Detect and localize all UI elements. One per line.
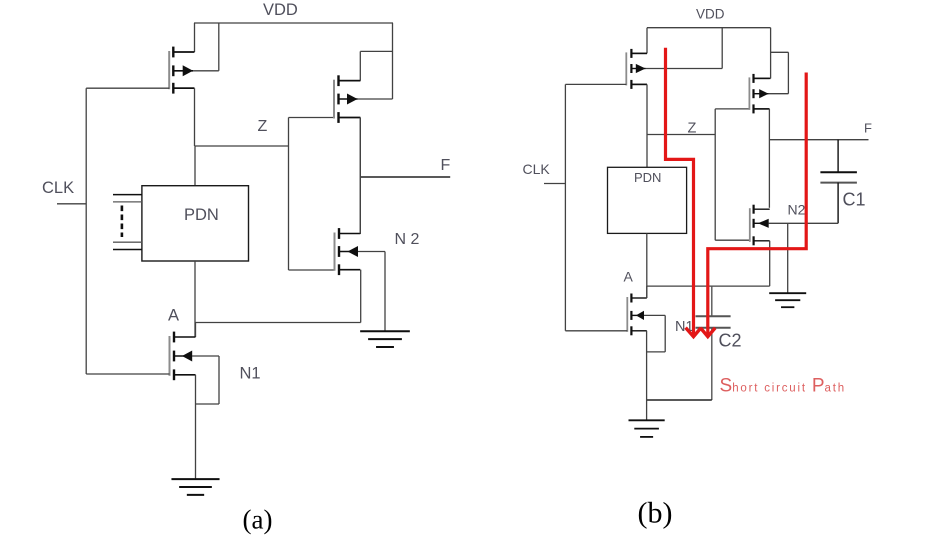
node CLK label (a) [42,179,74,197]
capacitor C1 stem top (b) [837,140,839,173]
figure label (b) [638,497,673,530]
wire P1 drain to Z (b) [631,84,647,134]
capacitor C2 (b) [696,316,742,350]
wire CLK to N1 gate (a) [86,373,169,375]
ground below N2 (a) [360,331,410,347]
svg-text:PDN: PDN [184,206,219,224]
wire CLK to P1 gate (a) [86,87,169,89]
wire CLK stub (a) [57,203,86,205]
svg-text:C2: C2 [719,331,742,351]
figure label (a) [243,505,273,535]
wire P2 bulk loop (b) [769,52,789,93]
wire rail to N2 gate (a) [289,269,335,271]
capacitor C1 stem bottom (b) [837,183,839,224]
svg-text:A: A [624,269,634,285]
wire P2 drain to F rail (b) [754,109,770,208]
wire right inverter input rail (a) [288,118,290,271]
node N1 label (a) [240,365,261,383]
wire rail to P2 gate (b) [715,108,749,110]
PDN input ellipsis dashed line (a) [121,206,124,238]
capacitor C2 stem top (b) [711,286,713,316]
svg-text:F: F [441,157,451,174]
transistor N2 output-inverter NMOS (a) [335,228,361,275]
wire C2 to ground rail (b) [647,399,712,401]
wire N1 source to ground (a) [195,375,197,479]
svg-text:CLK: CLK [523,161,551,177]
wire N2 source down to A wire (a) [360,270,362,323]
svg-text:PDN: PDN [634,170,661,185]
wire CLK stub (b) [544,183,565,185]
wire inverter input rail (b) [714,109,716,240]
wire CLK to P1 gate (b) [565,83,626,85]
transistor N1 footer NMOS (b) [627,294,647,336]
node Z label (b) [688,121,697,137]
capacitor C2 stem bottom (b) [711,328,713,400]
transistor P1 precharge PMOS (a) [169,47,194,94]
svg-text:VDD: VDD [696,7,725,22]
node VDD label (b) [696,7,725,22]
wire N1 bulk loop (b) [644,315,665,352]
wire N2 source down to A wire (b) [769,241,771,286]
ground below N2 (b) [769,293,806,307]
wire P2 source to VDD (b) [754,28,771,79]
transistor P2 output-inverter PMOS (b) [749,74,769,114]
transistor P1 precharge PMOS (b) [626,49,647,89]
node F label (a) [441,157,451,174]
svg-text:N 2: N 2 [395,231,420,248]
node F label (b) [864,121,872,136]
wire P1 source to VDD (a) [173,23,194,52]
wire N1 drain to node A (b) [646,286,648,298]
node N1 label (b) [675,319,694,335]
svg-text:C1: C1 [843,190,866,210]
wire Z to PDN top (a) [194,146,196,186]
transistor P2 output-inverter PMOS (a) [334,75,360,123]
wire P1 drain to Z (a) [173,88,194,146]
wire P1 bulk to VDD (a) [193,23,219,71]
node A label (b) [624,269,634,285]
svg-text:VDD: VDD [263,1,298,19]
pull-down network PDN box (b) [608,167,687,233]
ground below N1 (a) [171,479,219,495]
transistor N1 footer NMOS (a) [170,332,196,381]
svg-text:Z: Z [258,118,268,135]
short-circuit path red segment 1 (b) [666,48,694,334]
node VDD label (a) [263,1,298,19]
wire Z rail to P2 gate (a) [289,117,335,119]
wire CLK rail (a) [85,88,87,374]
wire N2 bulk to ground (a) [358,252,385,332]
wire P1 bulk to VDD (b) [646,28,723,69]
wire PDN bottom to node A (a) [194,261,196,337]
wire VDD rail (a) [194,22,393,24]
node CLK label (b) [523,161,551,177]
wire Z to PDN top (b) [646,135,648,168]
wire Z node (b) [647,134,715,136]
PDN input lines (a) [113,195,142,250]
node N2 label (a) [395,231,420,248]
wire PDN bottom to node A (b) [646,233,648,298]
svg-text:(a): (a) [243,505,273,535]
wire Z node (a) [195,145,289,147]
node A label (a) [168,307,179,325]
transistor N2 output-inverter NMOS (b) [750,205,770,246]
short-circuit path red arrowhead 1 (b) [686,328,701,337]
svg-text:CLK: CLK [42,179,74,197]
wire CLK rail (b) [564,84,566,330]
pull-down network PDN box (a) [142,186,249,261]
svg-text:N2: N2 [788,202,806,218]
svg-text:N1: N1 [240,365,261,383]
wire N1 source to ground (b) [646,331,648,421]
svg-text:Short circuit Path: Short circuit Path [720,376,846,397]
wire VDD down to P2 bulk (a) [358,23,393,99]
wire N2 bulk to C1 (b) [769,222,838,224]
wire F output (b) [769,139,868,141]
short-circuit path red arrowhead 2 (b) [701,328,716,337]
wire CLK to N1 gate (b) [565,330,627,332]
svg-text:(b): (b) [638,497,673,530]
wire P2 drain to F rail (a) [339,118,361,235]
wire rail to N2 gate (b) [715,239,750,241]
wire bulk to ground (b) [787,223,789,293]
node N2 label (b) [788,202,806,218]
wire N2 drain up (a) [359,118,361,234]
node Z label (a) [258,118,268,135]
wire P1 source to VDD (b) [631,28,647,54]
wire node A to N2 source (b) [647,285,770,287]
wire node A to N2 source (a) [195,322,361,324]
svg-text:F: F [864,121,872,136]
wire P2 source loop to VDD (a) [339,51,393,80]
capacitor C1 (b) [820,172,865,209]
svg-text:A: A [168,307,179,325]
wire N1 bulk loop to source (a) [192,356,219,404]
short circuit path text label (b) [720,376,846,397]
wire VDD rail (b) [647,27,771,29]
wire N1 drain to node A (a) [195,323,197,338]
ground below N1 (b) [629,420,665,437]
wire F output (a) [360,176,450,178]
short-circuit path red segment 2 (b) [708,73,806,335]
